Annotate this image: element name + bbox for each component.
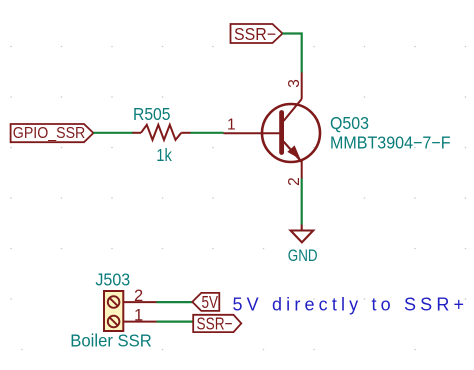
global label GPIO_SSR <box>11 124 94 142</box>
transistor Q503 <box>262 99 320 162</box>
global label SSR- (bottom) <box>193 315 241 332</box>
wire SSR- to collector pin <box>283 34 302 73</box>
pin 1 (base) <box>224 132 282 134</box>
power label 5V <box>192 293 219 311</box>
wire J503 pin2 to 5V <box>157 301 193 303</box>
svg-text:2: 2 <box>134 287 143 305</box>
svg-text:GPIO_SSR: GPIO_SSR <box>13 125 86 142</box>
pin 2 (J503) <box>123 301 156 303</box>
svg-text:5V directly to SSR+: 5V directly to SSR+ <box>233 295 465 315</box>
global label SSR- (top) <box>231 24 283 43</box>
connector J503 <box>104 291 123 331</box>
pin 2 (emitter) <box>301 160 303 179</box>
svg-text:1: 1 <box>134 307 143 325</box>
wire J503 pin1 to SSR- <box>157 321 194 323</box>
svg-text:1: 1 <box>227 117 236 134</box>
svg-text:J503: J503 <box>95 270 130 290</box>
pin 1 (J503) <box>123 321 156 323</box>
wire GPIO_SSR to R505 <box>93 132 133 134</box>
wire emitter to GND <box>301 179 303 225</box>
svg-text:SSR−: SSR− <box>197 314 233 334</box>
svg-text:SSR−: SSR− <box>234 24 276 44</box>
svg-text:5V: 5V <box>202 292 219 312</box>
pin 3 (collector) <box>301 73 303 100</box>
svg-text:3: 3 <box>286 79 303 88</box>
wire R505 to base <box>191 132 224 134</box>
ground <box>291 225 314 243</box>
svg-text:2: 2 <box>286 177 303 186</box>
svg-text:1k: 1k <box>156 145 172 165</box>
svg-text:Boiler SSR: Boiler SSR <box>70 331 152 351</box>
svg-text:MMBT3904−7−F: MMBT3904−7−F <box>330 133 451 153</box>
svg-text:R505: R505 <box>133 104 171 124</box>
svg-text:GND: GND <box>288 247 318 265</box>
resistor R505 <box>133 125 191 140</box>
svg-text:Q503: Q503 <box>330 113 369 133</box>
